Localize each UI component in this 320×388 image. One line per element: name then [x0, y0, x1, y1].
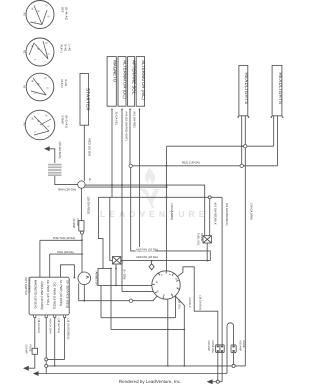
svg-text:S: S — [47, 16, 50, 18]
svg-text:(B+S+A1): (B+S+A1) — [65, 116, 69, 128]
svg-text:30 GA YEL: 30 GA YEL — [115, 112, 119, 126]
svg-text:START: START — [61, 116, 65, 125]
svg-text:#18/TAN (18 GA): #18/TAN (18 GA) — [136, 247, 157, 251]
svg-text:(18 GA ORN): (18 GA ORN) — [170, 204, 174, 221]
svg-text:RUN 1: RUN 1 — [60, 45, 64, 54]
svg-text:(18-04-R02): (18-04-R02) — [28, 278, 32, 293]
svg-text:KEY SWITCH: KEY SWITCH — [24, 278, 28, 295]
svg-text:FUSE: FUSE — [29, 345, 32, 352]
svg-text:(G+M+A1): (G+M+A1) — [65, 7, 69, 20]
svg-text:FUSE: FUSE — [242, 341, 245, 348]
svg-text:(18 GA): (18 GA) — [178, 300, 181, 309]
svg-text:G: G — [45, 42, 48, 44]
svg-text:M: M — [31, 8, 34, 10]
svg-text:Rendered by LeadVenture, Inc.: Rendered by LeadVenture, Inc. — [119, 379, 181, 384]
svg-text:(18 GA RED/BLK): (18 GA RED/BLK) — [67, 319, 70, 340]
svg-text:AMMETER: AMMETER — [95, 272, 99, 286]
svg-text:A1 PWR (18 ORN): A1 PWR (18 ORN) — [59, 280, 63, 306]
svg-text:DC PWR (18 RED): DC PWR (18 RED) — [53, 283, 57, 309]
svg-text:AFTERFIRE SOL.: AFTERFIRE SOL. — [132, 60, 137, 95]
svg-text:A2: A2 — [23, 50, 26, 54]
svg-text:(18 GA BLK): (18 GA BLK) — [198, 296, 201, 311]
svg-text:M: M — [31, 45, 34, 47]
svg-text:(18 GA BRN): (18 GA BRN) — [250, 204, 254, 220]
svg-text:M: M — [31, 118, 34, 120]
svg-text:FUSE: FUSE — [76, 219, 80, 227]
svg-text:MAGNETO (18 BLK): MAGNETO (18 BLK) — [33, 280, 37, 309]
svg-text:(18 GA BLK): (18 GA BLK) — [37, 319, 40, 334]
svg-text:B: B — [37, 48, 40, 50]
svg-text:G: G — [45, 115, 48, 117]
svg-text:#16 GA RED/BLK: #16 GA RED/BLK — [213, 203, 217, 225]
svg-text:OFF: OFF — [61, 7, 65, 13]
svg-text:L+A2: L+A2 — [68, 45, 72, 52]
svg-text:C: C — [170, 294, 173, 296]
svg-text:G: G — [45, 5, 48, 7]
svg-text:ALTERNATOR (A/C): ALTERNATOR (A/C) — [141, 60, 146, 100]
svg-text:S: S — [47, 126, 50, 128]
svg-text:B+ SERVICE (RED): B+ SERVICE (RED) — [65, 281, 69, 309]
svg-text:B: B — [37, 83, 40, 85]
svg-text:#18/TAN (18 GA): #18/TAN (18 GA) — [136, 255, 157, 259]
svg-text:B: B — [37, 11, 40, 13]
svg-text:A2: A2 — [23, 123, 26, 127]
svg-text:DIODE: DIODE — [200, 233, 203, 241]
svg-text:#20 AMP: #20 AMP — [207, 341, 210, 352]
svg-text:HEADLIGHTS: HEADLIGHTS — [278, 73, 283, 105]
svg-text:HEADLIGHTS: HEADLIGHTS — [244, 73, 249, 105]
svg-text:ALTERNATOR (DC): ALTERNATOR (DC) — [122, 60, 127, 99]
svg-text:(18 GA RED/BLK): (18 GA RED/BLK) — [225, 203, 229, 225]
svg-text:A2: A2 — [23, 13, 26, 17]
svg-text:FUSE 20A: FUSE 20A — [211, 341, 214, 354]
svg-text:#22 BLK: #22 BLK — [188, 298, 191, 308]
svg-text:AC PWR (18 YEL): AC PWR (18 YEL) — [46, 280, 50, 305]
svg-text:#18 GA GRN: #18 GA GRN — [48, 319, 51, 334]
svg-text:RED (18 GA): RED (18 GA) — [87, 139, 91, 157]
svg-text:B+: B+ — [88, 179, 91, 183]
svg-text:A: A — [85, 276, 90, 279]
svg-text:(18 GA RED): (18 GA RED) — [86, 197, 90, 215]
svg-text:#20 AMP: #20 AMP — [239, 341, 242, 352]
svg-text:MAGNETO: MAGNETO — [112, 60, 117, 82]
svg-text:M: M — [31, 80, 34, 82]
svg-text:(18 GA BLK): (18 GA BLK) — [58, 142, 62, 159]
svg-text:G: G — [44, 77, 47, 79]
svg-text:GROUND (18 GRN): GROUND (18 GRN) — [40, 282, 44, 310]
svg-text:LEADVENTURE: LEADVENTURE — [100, 209, 208, 219]
svg-text:FUEL SOL: FUEL SOL — [196, 233, 199, 246]
svg-text:S: S — [46, 87, 49, 89]
svg-text:G: G — [156, 291, 159, 293]
svg-text:20 AMP: 20 AMP — [72, 219, 76, 229]
svg-text:#44 (18 GA RED-WHT): #44 (18 GA RED-WHT) — [125, 112, 129, 141]
svg-text:(18 GA YEL): (18 GA YEL) — [57, 319, 60, 334]
svg-text:H: H — [176, 287, 179, 289]
svg-text:B+A1: B+A1 — [64, 80, 68, 87]
svg-text:A2: A2 — [23, 85, 26, 89]
svg-text:STARTER: STARTER — [86, 88, 91, 111]
svg-text:GRN (18 GA): GRN (18 GA) — [58, 188, 76, 192]
svg-text:B+A1: B+A1 — [64, 45, 68, 52]
svg-text:RED (18 GA): RED (18 GA) — [182, 161, 200, 165]
svg-text:PNK (18 GA): PNK (18 GA) — [57, 250, 73, 254]
svg-text:20 AMP: 20 AMP — [25, 345, 28, 354]
svg-text:#16 GA RED: #16 GA RED — [133, 112, 137, 128]
svg-text:B: B — [37, 121, 40, 123]
svg-text:B+ SRV: B+ SRV — [122, 270, 126, 280]
svg-text:PNK/TAN (18 GA): PNK/TAN (18 GA) — [53, 236, 76, 240]
svg-text:RUN 2: RUN 2 — [60, 80, 64, 89]
svg-text:S: S — [47, 53, 50, 55]
svg-text:D: D — [175, 278, 178, 280]
